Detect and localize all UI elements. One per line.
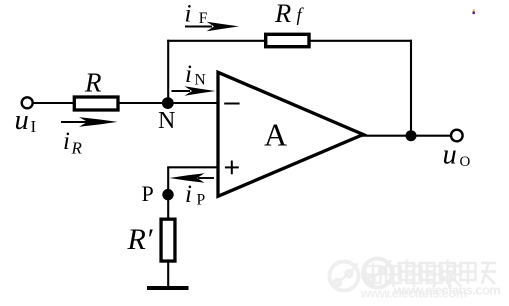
current arrow iR bbox=[61, 117, 118, 127]
svg-text:N: N bbox=[158, 108, 175, 134]
feedback wire left segment bbox=[167, 40, 266, 42]
resistor R bbox=[74, 97, 118, 110]
svg-text:i: i bbox=[185, 0, 192, 27]
current arrow iP (pointing left) bbox=[170, 173, 215, 182]
svg-text:f: f bbox=[297, 6, 305, 26]
op-amp plus input sign bbox=[225, 161, 239, 175]
current arrow iF bbox=[185, 22, 239, 32]
svg-text:R′: R′ bbox=[127, 223, 153, 256]
svg-text:i: i bbox=[185, 181, 192, 208]
output terminal uO bbox=[451, 130, 463, 142]
svg-text:R: R bbox=[274, 0, 291, 28]
feedback wire right segment bbox=[309, 40, 412, 42]
svg-text:A: A bbox=[264, 117, 287, 153]
ground bbox=[147, 286, 189, 290]
current arrow iN bbox=[172, 86, 216, 96]
op-amp A bbox=[218, 72, 363, 196]
op-amp minus input sign bbox=[224, 103, 239, 105]
wire resistor R' to ground bbox=[167, 261, 169, 288]
svg-text:F: F bbox=[199, 10, 208, 27]
svg-text:i: i bbox=[63, 128, 70, 155]
svg-text:www.elecfans.com: www.elecfans.com bbox=[360, 286, 467, 301]
wire input to resistor R bbox=[34, 102, 75, 104]
svg-text:i: i bbox=[185, 61, 192, 88]
watermark group (logo + site name, two offset copies) bbox=[363, 259, 500, 298]
svg-text:P: P bbox=[142, 181, 154, 206]
svg-text:P: P bbox=[197, 192, 206, 209]
svg-text:N: N bbox=[195, 72, 206, 89]
node P bbox=[162, 189, 173, 200]
svg-text:R: R bbox=[84, 68, 102, 98]
svg-text:I: I bbox=[31, 117, 37, 136]
node N bbox=[162, 97, 174, 109]
output node bbox=[406, 130, 417, 141]
feedback wire down to output node bbox=[410, 40, 412, 136]
svg-text:R: R bbox=[71, 139, 83, 158]
wire plus input to P branch bbox=[167, 166, 218, 168]
svg-text:u: u bbox=[443, 139, 457, 170]
wire node N up to feedback bbox=[167, 40, 169, 104]
svg-text:O: O bbox=[460, 154, 471, 170]
resistor R' bbox=[161, 219, 175, 261]
input terminal uI bbox=[22, 97, 33, 108]
resistor Rf bbox=[266, 34, 309, 46]
output wire bbox=[362, 135, 451, 137]
wire down to node P and resistor R' bbox=[167, 167, 169, 219]
watermark second offset copy bbox=[330, 262, 467, 301]
wire resistor R to op-amp bbox=[118, 102, 218, 104]
red artifact dot bbox=[473, 12, 475, 15]
svg-text:u: u bbox=[15, 105, 29, 136]
